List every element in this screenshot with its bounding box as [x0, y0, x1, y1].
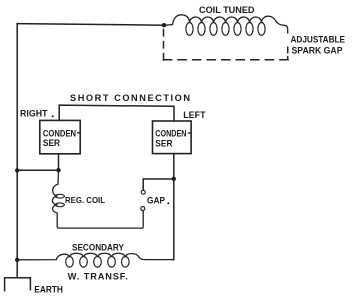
svg-text:GAP: GAP [147, 195, 165, 205]
node: junction right condenser bottom [172, 177, 176, 181]
capacitor: left condenser box [153, 121, 192, 154]
inductor L1 loop 2 [198, 23, 205, 36]
capacitor: right condenser box [40, 120, 80, 153]
wire: spark gap dashed left vertical [163, 30, 165, 61]
node: junction top (tuned coil tap) [162, 23, 166, 27]
label CONDEN hyphen (left condenser) [188, 132, 191, 133]
inductor L2 loop 2 [55, 203, 64, 207]
svg-text:W. TRANSF.: W. TRANSF. [68, 272, 128, 282]
inductor L3 loop 1 [66, 257, 74, 268]
svg-text:CONDEN: CONDEN [155, 128, 186, 138]
svg-text:REG. COIL: REG. COIL [65, 195, 105, 205]
wire: left condenser bottom lead [173, 154, 175, 179]
svg-text:LEFT: LEFT [183, 110, 206, 120]
inductor L1 loop 5 [234, 23, 241, 36]
node: junction earth / secondary [15, 258, 19, 262]
wire: left rail [16, 24, 18, 278]
spark gap upper electrode [141, 190, 145, 194]
svg-text:RIGHT: RIGHT [20, 109, 48, 119]
inductor L1 loop 3 [210, 23, 217, 36]
label RIGHT period [52, 115, 54, 117]
spark gap lower electrode [141, 207, 145, 211]
svg-text:SPARK GAP: SPARK GAP [292, 45, 343, 56]
inductor L3 (secondary) humps [17, 253, 173, 260]
inductor L1 loop 6 [246, 23, 253, 36]
wire: junction to left rail [17, 169, 58, 171]
label CONDEN hyphen (right condenser) [77, 132, 80, 133]
svg-text:SHORT CONNECTION: SHORT CONNECTION [70, 93, 190, 103]
svg-text:EARTH: EARTH [34, 284, 63, 294]
wire: spark gap dashed bottom [164, 59, 289, 61]
inductor L3 loop 2 [80, 257, 88, 268]
wire: spark gap dashed right vertical [287, 47, 289, 60]
wire: right rail down to secondary [173, 179, 174, 260]
svg-text:CONDEN: CONDEN [43, 128, 76, 138]
inductor L1 (tuned coil) humps [164, 15, 288, 33]
svg-text:ADJUSTABLE: ADJUSTABLE [291, 33, 346, 44]
node: junction on left rail [15, 168, 19, 172]
svg-text:COIL TUNED: COIL TUNED [199, 5, 255, 15]
inductor L2 (reg. coil) spine [52, 170, 143, 228]
node: junction left condenser bottom [56, 168, 60, 172]
wire: top horizontal [17, 24, 164, 26]
inductor L1 loop 1 [186, 23, 193, 36]
ground: earth symbol [5, 278, 31, 291]
inductor L2 loop 1 [55, 194, 64, 198]
inductor L3 loop 5 [122, 257, 130, 268]
svg-text:SER: SER [43, 138, 61, 148]
wire: short connection [59, 105, 174, 121]
inductor L1 loop 7 [258, 23, 265, 36]
inductor L1 loop 4 [222, 23, 229, 36]
wire: right condenser bottom lead [58, 154, 60, 170]
svg-text:SECONDARY: SECONDARY [72, 243, 124, 253]
label GAP comma [167, 202, 169, 204]
inductor L3 loop 4 [108, 257, 116, 268]
wire: upper electrode to junction [143, 179, 174, 190]
inductor L3 loop 3 [94, 257, 102, 268]
svg-text:SER: SER [155, 139, 173, 149]
